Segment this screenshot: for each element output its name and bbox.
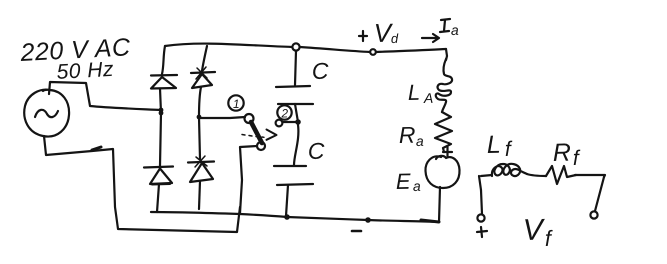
switch motion dashes bbox=[242, 135, 264, 138]
wire C2 to bottom bus bbox=[286, 185, 288, 216]
wire motor to bottom bus bbox=[439, 187, 440, 222]
wire field top bbox=[481, 175, 492, 176]
label Vf bbox=[522, 214, 554, 251]
node junction contact2-rail bbox=[295, 119, 301, 125]
terminal field right bbox=[590, 211, 597, 218]
svg-text:2: 2 bbox=[280, 106, 288, 120]
wire contact2 to cap rail bbox=[283, 121, 297, 123]
label Ia bbox=[440, 19, 459, 38]
switch contact 2 bbox=[276, 120, 283, 127]
svg-text:d: d bbox=[391, 31, 399, 46]
node junction C2-bus bbox=[284, 214, 290, 220]
label Ea bbox=[396, 169, 421, 194]
wire top bus right corner down bbox=[446, 49, 447, 60]
diode D3 bbox=[144, 167, 173, 185]
wire rail B mid bbox=[199, 87, 201, 159]
switch lever bbox=[251, 122, 262, 143]
label Rf bbox=[553, 139, 582, 170]
label Lf bbox=[487, 131, 514, 161]
inductor La bbox=[436, 59, 452, 112]
label + field bbox=[477, 227, 487, 237]
diode D2 bbox=[191, 67, 215, 88]
inductor Lf bbox=[492, 164, 527, 176]
wire bridge mid to switch contact1 bbox=[199, 117, 245, 118]
label Ra bbox=[399, 122, 425, 149]
switch position label 2 bbox=[277, 105, 291, 120]
wire junction to C2 bbox=[294, 125, 298, 165]
motor Ea circle bbox=[425, 156, 459, 188]
resistor Rf zigzag bbox=[546, 166, 576, 184]
wire switch lower to bottom bbox=[240, 146, 257, 213]
wire cap rail top bbox=[295, 51, 296, 85]
tick on wire bbox=[92, 147, 101, 150]
switch contact 1 bbox=[245, 114, 254, 123]
wire left rail bottom bbox=[157, 184, 159, 212]
wire bottom bus bbox=[151, 212, 439, 222]
wire AC bottom loop bbox=[44, 136, 240, 232]
svg-text:E: E bbox=[396, 169, 412, 194]
svg-text:50 Hz: 50 Hz bbox=[56, 58, 114, 84]
label +Vd bbox=[359, 18, 399, 48]
switch motion chevron bbox=[267, 130, 277, 140]
label + above motor bbox=[443, 147, 452, 157]
label 220V AC bbox=[19, 33, 132, 67]
svg-text:C: C bbox=[308, 138, 326, 164]
wire rail B top bbox=[202, 46, 207, 71]
node junction D1-D3 bbox=[159, 111, 164, 116]
capacitor C2 bbox=[274, 166, 313, 185]
node junction bus dot bbox=[365, 217, 371, 223]
wire top bus bbox=[165, 44, 446, 52]
diode D4 bbox=[188, 156, 214, 182]
svg-text:L: L bbox=[487, 131, 501, 159]
svg-text:1: 1 bbox=[233, 97, 240, 111]
wire left rail top bbox=[162, 46, 165, 74]
switch contact lower bbox=[257, 142, 265, 150]
field circuit top wire left stub bbox=[479, 176, 481, 190]
wire field right lead bbox=[595, 177, 604, 211]
wire rail B bottom bbox=[199, 181, 200, 209]
wire Lf to Rf bbox=[527, 174, 546, 176]
label Ia arrow bbox=[422, 34, 439, 42]
label 50Hz bbox=[56, 58, 114, 84]
node top bus mid bbox=[370, 49, 376, 55]
wire Rf to right corner bbox=[575, 175, 605, 177]
label La bbox=[408, 80, 434, 106]
wire left rail mid bbox=[160, 89, 161, 167]
node top bus left bbox=[292, 43, 299, 50]
node junction AC-left rail bbox=[159, 108, 164, 113]
svg-text:L: L bbox=[408, 80, 421, 105]
svg-text:A: A bbox=[423, 90, 434, 106]
wire cap C1 to junction bbox=[295, 104, 298, 122]
label minus bbox=[352, 230, 361, 233]
terminal field left bbox=[477, 214, 484, 221]
AC source V1 bbox=[24, 90, 69, 137]
svg-text:a: a bbox=[413, 178, 421, 194]
diode D1 bbox=[151, 75, 177, 89]
resistor Ra zigzag bbox=[435, 112, 452, 152]
svg-text:C: C bbox=[312, 58, 330, 84]
capacitor C1 bbox=[276, 86, 313, 104]
svg-text:a: a bbox=[451, 22, 459, 38]
svg-text:R: R bbox=[553, 139, 572, 167]
svg-text:R: R bbox=[399, 122, 416, 148]
wire field left lead bbox=[481, 190, 482, 214]
svg-text:a: a bbox=[416, 133, 424, 149]
switch S1 position label 1 bbox=[228, 95, 243, 111]
node junction D2-D4 bbox=[197, 115, 202, 120]
wire AC top to bridge bbox=[49, 82, 161, 110]
